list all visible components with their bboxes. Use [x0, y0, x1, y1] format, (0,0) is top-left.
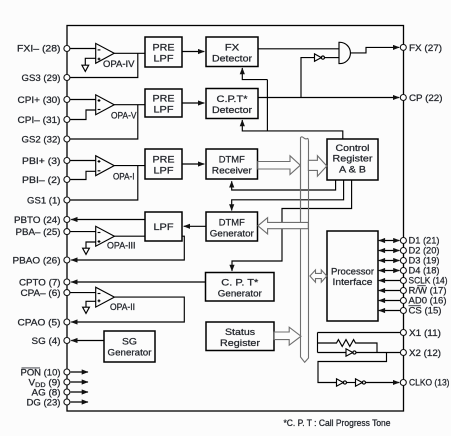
wire CPI+ to OPA-V non-inverting input [70, 99, 97, 101]
wire clock buffer to CLKO pin [366, 382, 400, 384]
pin CPA- (6) [64, 290, 70, 296]
wire OPA-II non-inverting input to ground [86, 301, 96, 307]
wire D3 bidirectional [379, 260, 400, 262]
wire DTMF generator to LPF [184, 225, 206, 227]
plus sign OPA-IV [98, 58, 101, 61]
pin FX (27) [400, 44, 406, 50]
bus right rail [308, 141, 310, 358]
inverter U8 clock buffer 1 [337, 379, 344, 386]
pin PBAO (26) [64, 257, 70, 263]
wire CP line tap up to inverter [301, 58, 315, 98]
pin GS3 (29) [64, 75, 70, 81]
block PRE LPF 3 [145, 149, 182, 179]
wire OPA-III non-inverting input to ground [86, 242, 96, 248]
wire X1 [318, 332, 401, 334]
bus arrow DTMF receiver to bus [258, 156, 301, 175]
pin SG (4) [64, 338, 70, 344]
wire CPA- to OPA-II inverting input [70, 292, 97, 294]
wire PRE LPF 1 to FX detector [182, 51, 204, 53]
wire GS3 feedback [70, 53, 138, 77]
svg-text:CPI+ (30): CPI+ (30) [18, 94, 61, 105]
wire PRE LPF 2 to CPT detector [182, 102, 204, 104]
svg-text:OPA-I: OPA-I [113, 171, 135, 181]
op-amp OPA-II [96, 287, 115, 307]
wire bus left rail overdraw at receiver arrow [300, 150, 302, 220]
wire PRE LPF 3 to DTMF receiver [182, 163, 204, 165]
svg-text:CP (22): CP (22) [409, 92, 443, 103]
wire control register to CPT generator [232, 180, 352, 271]
svg-text:OPA-V: OPA-V [111, 110, 137, 120]
block Control Register A and B [327, 139, 378, 180]
wire OPA-II output loop to CPAO pin [71, 297, 184, 322]
bus arrow processor interface bidirectional [310, 270, 327, 282]
op-amp OPA-IV [96, 43, 115, 63]
pin GS1 (1) [64, 197, 70, 203]
wire control to FX detector bottom [242, 68, 267, 80]
svg-text:GS1 (1): GS1 (1) [27, 194, 61, 205]
inverter U9 clock buffer 2 [356, 379, 363, 386]
svg-text:PBA– (25): PBA– (25) [16, 226, 61, 237]
svg-text:PBI– (2): PBI– (2) [22, 174, 61, 185]
pin CPAO (5) [64, 319, 70, 325]
block C.P.T Detector [206, 89, 258, 119]
inverter U7 oscillator [346, 349, 353, 356]
svg-text:GS2 (32): GS2 (32) [22, 133, 61, 144]
bus arrow status register to bus [274, 327, 301, 345]
wire CS input [379, 310, 400, 312]
pin DG (23) [64, 399, 70, 405]
wire FXI- to OPA-IV inverting input [70, 48, 97, 50]
wire LPF to PBTO pin [71, 219, 145, 221]
svg-text:CPI– (31): CPI– (31) [18, 114, 61, 125]
ground (OPA-IV) [82, 65, 89, 71]
pin PBA- (25) [64, 229, 70, 235]
svg-text:ProcessorInterface: ProcessorInterface [331, 265, 374, 287]
svg-text:X1 (11): X1 (11) [409, 327, 441, 338]
pin AD0 (16) [400, 298, 406, 304]
wire PBA- to OPA-III inverting input [70, 231, 97, 233]
svg-text:StatusRegister: StatusRegister [220, 326, 260, 348]
plus sign OPA-V [98, 99, 101, 102]
minus sign OPA-III [98, 232, 101, 234]
wire OPA-III output loop to PBAO pin [71, 236, 184, 260]
wire C.P.T generator to CPTO pin [71, 281, 205, 283]
wire PBI- to OPA-I inverting input [70, 171, 97, 179]
wire X1 to oscillator input [317, 333, 319, 353]
op-amp OPA-V [96, 95, 115, 115]
svg-text:LPF: LPF [154, 221, 174, 232]
block PRE LPF 2 [145, 89, 182, 117]
wire D1 bidirectional [379, 240, 400, 242]
wire OPA-I output to PRE LPF 3 [114, 165, 145, 167]
bus arrow bus to control register [308, 156, 326, 177]
svg-text:GS3 (29): GS3 (29) [22, 72, 61, 83]
wire oscillator inverter output to X2 [356, 352, 400, 354]
pin PBI+ (3) [64, 158, 70, 164]
wire AD0 input [379, 300, 400, 302]
svg-text:PBTO (24): PBTO (24) [14, 214, 61, 225]
block C.P.T Generator [206, 273, 275, 302]
pin CLKO (13) [400, 380, 406, 386]
wire control register to DTMF generator [232, 180, 344, 211]
wire inverter to AND gate [325, 57, 340, 59]
pin CP (22) [400, 95, 406, 101]
svg-text:CPA– (6): CPA– (6) [21, 287, 61, 298]
svg-text:*C. P. T : Call Progress Tone: *C. P. T : Call Progress Tone [284, 418, 391, 428]
wire OPA-IV output to PRE LPF 1 [114, 52, 145, 54]
pin D3 (19) [400, 258, 406, 264]
block Status Register [206, 322, 274, 351]
block DTMF Generator [206, 212, 258, 241]
svg-text:SG (4): SG (4) [32, 335, 61, 346]
pin VDD (9) [64, 379, 70, 385]
wire FX detector output to AND gate [258, 48, 339, 50]
pin FXI- (28) [64, 46, 70, 52]
overbar for PON [22, 367, 41, 369]
chip outline box [67, 26, 404, 412]
op-amp OPA-I [96, 156, 115, 176]
resistor R1 oscillator feedback [318, 340, 378, 353]
wire GS1 feedback [70, 166, 138, 200]
wire vertical between detector control lines [266, 80, 268, 131]
plus sign OPA-II [98, 299, 101, 302]
minus sign OPA-II [98, 293, 101, 295]
wire control to CPT detector bottom [242, 120, 342, 139]
pin AG (8) [64, 389, 70, 395]
wire CPI- to OPA-V inverting input [70, 110, 97, 120]
overbar for W in R/W [417, 285, 426, 287]
op-amp OPA-III [96, 226, 115, 246]
bus arrow bus to DTMF generator [258, 218, 308, 234]
wire OPA-IV non-inverting input to ground [85, 58, 96, 65]
wire CPT detector output to CP pin [258, 97, 399, 99]
wire D2 bidirectional [379, 250, 400, 252]
bus bottom chevron [301, 357, 309, 362]
svg-text:CS (15): CS (15) [409, 305, 442, 316]
wire R/W input [379, 290, 400, 292]
block Processor Interface [327, 231, 378, 321]
block PRE LPF 1 [145, 37, 182, 67]
pin X1 (11) [400, 330, 406, 336]
overbar for CS [409, 305, 421, 307]
wire PON input arrow [71, 371, 89, 373]
pin CPI- (31) [64, 117, 70, 123]
svg-text:FX (27): FX (27) [409, 42, 442, 53]
pin SCLK (14) [400, 278, 406, 284]
AND gate U6 [339, 42, 350, 63]
wire AND gate output to FX pin [351, 47, 400, 53]
wire SG generator to SG pin [71, 340, 104, 342]
svg-text:C.P.T*Detector: C.P.T*Detector [212, 93, 252, 115]
pin D4 (18) [400, 268, 406, 274]
ground (OPA-II) [83, 307, 90, 313]
wire control register to DTMF receiver [232, 180, 336, 190]
pin D2 (20) [400, 248, 406, 254]
pin GS2 (32) [64, 136, 70, 142]
svg-text:PBI+ (3): PBI+ (3) [22, 155, 61, 166]
wire DG input arrow [71, 401, 89, 403]
svg-text:PRELPF: PRELPF [153, 42, 175, 64]
wire D4 bidirectional [379, 270, 400, 272]
pin CPI+ (30) [64, 97, 70, 103]
wire VDD input arrow [71, 381, 89, 383]
minus sign OPA-IV [98, 49, 101, 51]
block LPF [145, 212, 182, 241]
svg-text:PBAO (26): PBAO (26) [13, 254, 61, 265]
pin CPTO (7) [64, 279, 70, 285]
wire between clock buffers [347, 382, 356, 384]
block FX Detector [206, 37, 258, 67]
wire OPA-V output to PRE LPF 2 [114, 104, 145, 106]
bus top squiggle [301, 137, 309, 142]
svg-text:CPAO (5): CPAO (5) [18, 316, 61, 327]
svg-text:CPTO (7): CPTO (7) [19, 276, 61, 287]
wire GS2 feedback [70, 105, 138, 139]
svg-text:PRELPF: PRELPF [153, 154, 175, 176]
svg-text:OPA-II: OPA-II [110, 302, 135, 312]
svg-text:CLKO (13): CLKO (13) [409, 377, 450, 388]
block DTMF Receiver [206, 149, 258, 179]
pin PBTO (24) [64, 217, 70, 223]
svg-text:C. P. T*Generator: C. P. T*Generator [218, 277, 262, 299]
wire AG input arrow [71, 391, 89, 393]
wire X2 tap down [318, 353, 387, 383]
pin CS (15) [400, 308, 406, 314]
minus sign OPA-V [98, 109, 101, 111]
block SG Generator [104, 331, 155, 362]
plus sign OPA-I [98, 160, 101, 163]
pin R/W (17) [400, 288, 406, 294]
wire SCLK input [379, 280, 400, 282]
wire oscillator inverter input [318, 352, 347, 354]
svg-text:OPA-IV: OPA-IV [103, 59, 135, 69]
pin PBI- (2) [64, 177, 70, 183]
pin X2 (12) [400, 350, 406, 356]
svg-text:X2 (12): X2 (12) [409, 347, 441, 358]
bus left rail [300, 137, 302, 357]
svg-text:FXI– (28): FXI– (28) [17, 43, 61, 54]
pin PON (10) [64, 369, 70, 375]
svg-text:OPA-III: OPA-III [107, 240, 136, 250]
ground (OPA-III) [83, 248, 90, 254]
minus sign OPA-I [98, 170, 101, 172]
wire PBI+ to OPA-I non-inverting input [70, 160, 97, 162]
plus sign OPA-III [98, 240, 101, 243]
inverter U5 before AND gate [315, 54, 322, 61]
svg-text:DG (23): DG (23) [27, 396, 61, 407]
pin D1 (21) [400, 238, 406, 244]
svg-text:PRELPF: PRELPF [153, 93, 175, 115]
